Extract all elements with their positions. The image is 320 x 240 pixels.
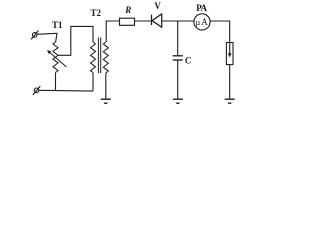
transformer T2 primary winding bbox=[91, 42, 96, 73]
svg-text:V: V bbox=[154, 1, 161, 11]
svg-text:C: C bbox=[185, 56, 192, 66]
ground under T2 bbox=[101, 99, 111, 103]
svg-text:µ: µ bbox=[195, 17, 200, 27]
ground under C bbox=[173, 99, 183, 103]
wire phi1 to T1 top bbox=[37, 33, 57, 42]
ground bottom-right bbox=[225, 99, 235, 103]
microammeter PA bbox=[194, 14, 210, 30]
test object / arrester F bbox=[226, 43, 233, 65]
wire arrester to ground bbox=[229, 65, 231, 100]
wire T2 primary bottom to rail bbox=[92, 73, 94, 92]
transformer T2 secondary winding bbox=[103, 42, 108, 73]
circuit: half-wave rectified HV test set bbox=[0, 0, 254, 122]
wire T1 tap to T2 primary bbox=[58, 26, 93, 55]
T1 variability arrow bbox=[50, 53, 66, 67]
wire diode to meter bbox=[162, 20, 194, 22]
diode V bbox=[152, 14, 162, 27]
bottom rail wire bbox=[39, 89, 93, 92]
terminal phi2 (supply phase, bottom-left) bbox=[33, 86, 40, 95]
T2 core bbox=[98, 37, 100, 73]
wire C to ground bbox=[177, 60, 179, 99]
svg-text:PA: PA bbox=[196, 3, 207, 13]
svg-text:R: R bbox=[124, 5, 131, 15]
wire T1 bottom to bottom rail bbox=[55, 72, 57, 90]
terminal phi1 (supply phase, top-left) bbox=[31, 31, 38, 40]
autotransformer T1 winding bbox=[53, 42, 58, 72]
capacitor branch wire bbox=[177, 21, 179, 56]
svg-text:A: A bbox=[201, 17, 208, 27]
wire meter to load branch bbox=[210, 21, 230, 43]
capacitor C bbox=[173, 56, 183, 60]
wire T2 secondary top to rail bbox=[106, 21, 119, 42]
resistor R bbox=[120, 18, 135, 25]
svg-text:T2: T2 bbox=[90, 8, 101, 18]
svg-text:T1: T1 bbox=[52, 20, 63, 30]
wire R to diode bbox=[135, 20, 152, 22]
wire T2 secondary bottom to ground bbox=[105, 73, 107, 99]
